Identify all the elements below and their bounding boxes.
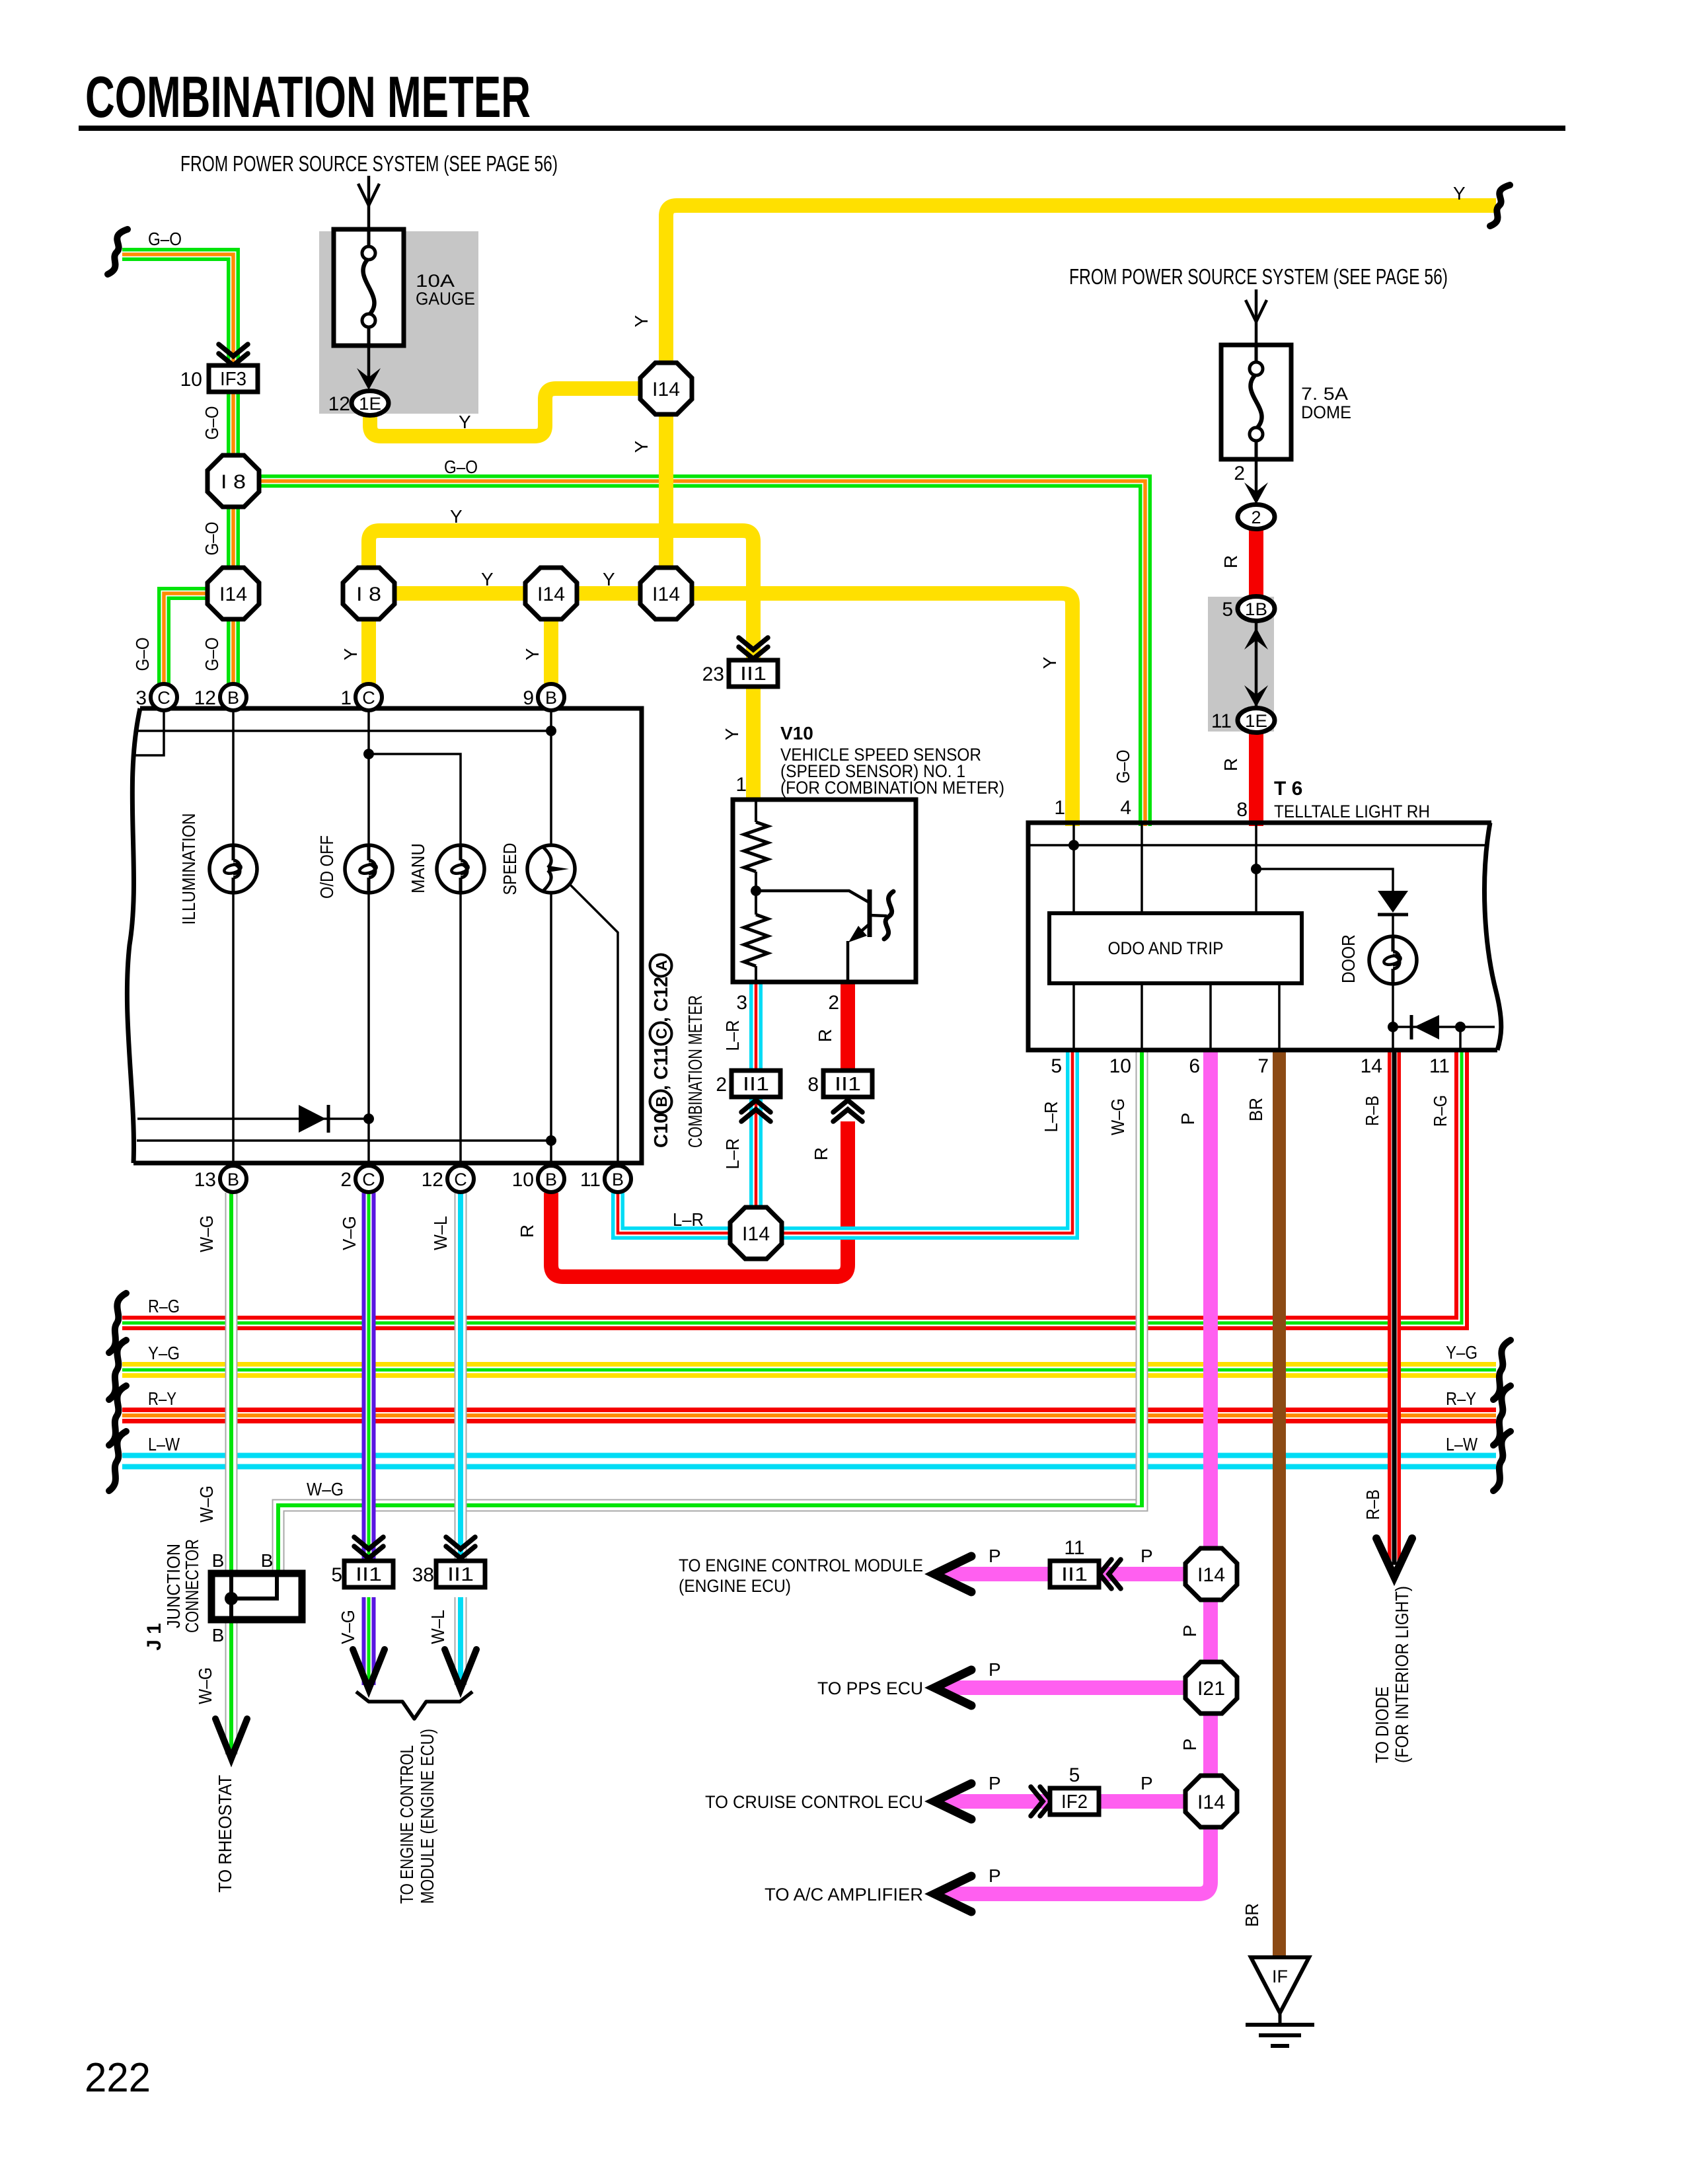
svg-text:Y: Y [481, 569, 494, 589]
svg-text:G–O: G–O [1113, 750, 1133, 784]
svg-text:1: 1 [735, 774, 747, 796]
svg-text:G–O: G–O [148, 229, 182, 249]
svg-text:1E: 1E [1245, 711, 1267, 731]
svg-text:1: 1 [340, 687, 352, 709]
svg-text:23: 23 [702, 663, 724, 685]
svg-text:I 8: I 8 [356, 584, 381, 605]
svg-text:G–O: G–O [202, 522, 222, 556]
svg-text:C: C [362, 1170, 375, 1189]
svg-text:R–G: R–G [148, 1296, 180, 1316]
svg-text:B: B [227, 688, 239, 708]
svg-text:I14: I14 [652, 379, 680, 400]
svg-text:Y: Y [459, 412, 471, 432]
svg-text:B: B [545, 688, 557, 708]
svg-text:G–O: G–O [202, 406, 222, 440]
svg-text:R–Y: R–Y [1446, 1388, 1476, 1409]
svg-text:Y–G: Y–G [1446, 1342, 1478, 1363]
svg-text:I14: I14 [652, 584, 680, 605]
svg-text:W–G: W–G [307, 1479, 344, 1499]
svg-text:ODO AND TRIP: ODO AND TRIP [1108, 938, 1224, 958]
svg-text:Y: Y [450, 506, 463, 527]
svg-text:II1: II1 [743, 1074, 769, 1095]
svg-text:I14: I14 [1197, 1791, 1225, 1813]
svg-text:O/D OFF: O/D OFF [317, 835, 337, 899]
svg-text:DOOR: DOOR [1338, 934, 1359, 983]
svg-text:5: 5 [1222, 599, 1233, 621]
svg-text:W–L: W–L [430, 1216, 451, 1250]
svg-text:9: 9 [523, 687, 534, 709]
svg-text:DOME: DOME [1301, 402, 1351, 422]
svg-text:L–W: L–W [1446, 1434, 1478, 1454]
svg-text:(FOR INTERIOR LIGHT): (FOR INTERIOR LIGHT) [1392, 1586, 1412, 1763]
svg-text:L–R: L–R [722, 1020, 743, 1051]
svg-text:B: B [227, 1170, 239, 1189]
svg-text:P: P [1178, 1113, 1198, 1125]
svg-text:14: 14 [1361, 1055, 1382, 1077]
svg-text:I14: I14 [537, 584, 565, 605]
svg-text:JUNCTION: JUNCTION [163, 1544, 184, 1628]
svg-text:GAUGE: GAUGE [416, 289, 475, 309]
svg-text:I 8: I 8 [221, 471, 246, 493]
svg-text:B: B [261, 1550, 274, 1571]
svg-text:II1: II1 [447, 1564, 474, 1585]
svg-text:2: 2 [828, 992, 839, 1014]
svg-text:TO ENGINE CONTROL: TO ENGINE CONTROL [396, 1745, 417, 1904]
svg-text:G–O: G–O [132, 638, 153, 671]
svg-text:TO CRUISE CONTROL ECU: TO CRUISE CONTROL ECU [705, 1792, 923, 1812]
svg-text:I14: I14 [1197, 1564, 1225, 1586]
svg-text:T 6: T 6 [1274, 778, 1302, 800]
svg-text:G–O: G–O [202, 638, 222, 671]
svg-text:TO DIODE: TO DIODE [1372, 1686, 1392, 1763]
svg-text:(ENGINE ECU): (ENGINE ECU) [679, 1576, 791, 1596]
svg-text:J 1: J 1 [143, 1623, 165, 1651]
svg-text:I14: I14 [219, 584, 247, 605]
svg-text:1B: 1B [1245, 599, 1267, 619]
svg-text:R–B: R–B [1363, 1489, 1383, 1520]
svg-text:I14: I14 [742, 1223, 770, 1245]
svg-text:Y: Y [1039, 656, 1060, 669]
svg-text:7: 7 [1257, 1055, 1269, 1077]
svg-text:11: 11 [1211, 710, 1232, 732]
svg-text:C: C [157, 688, 170, 708]
svg-text:1: 1 [1054, 797, 1065, 819]
svg-text:BR: BR [1246, 1098, 1266, 1121]
svg-text:10: 10 [180, 369, 202, 391]
svg-text:Y: Y [722, 728, 742, 740]
svg-text:G–O: G–O [444, 457, 478, 477]
svg-text:TELLTALE LIGHT RH: TELLTALE LIGHT RH [1274, 802, 1430, 821]
svg-text:R: R [517, 1224, 537, 1238]
svg-text:ILLUMINATION: ILLUMINATION [178, 813, 199, 925]
svg-text:2: 2 [1251, 508, 1261, 527]
svg-text:R–B: R–B [1362, 1096, 1382, 1126]
svg-text:Y: Y [631, 315, 652, 327]
svg-text:II1: II1 [356, 1564, 382, 1585]
svg-text:V–G: V–G [338, 1610, 358, 1644]
svg-text:4: 4 [1120, 797, 1131, 819]
svg-text:12: 12 [422, 1169, 443, 1191]
svg-text:W–L: W–L [428, 1610, 448, 1644]
svg-text:5: 5 [1051, 1055, 1062, 1077]
svg-text:COMBINATION METER: COMBINATION METER [685, 995, 706, 1148]
svg-text:P: P [989, 1546, 1001, 1566]
svg-text:W–G: W–G [1107, 1098, 1128, 1135]
svg-text:L–R: L–R [673, 1209, 704, 1230]
svg-text:11: 11 [1064, 1537, 1084, 1559]
svg-text:CONNECTOR: CONNECTOR [182, 1539, 202, 1633]
svg-text:2: 2 [340, 1169, 352, 1191]
svg-text:3: 3 [135, 687, 147, 709]
svg-text:12: 12 [328, 393, 350, 415]
svg-text:C: C [653, 1028, 670, 1039]
svg-text:Y: Y [522, 648, 543, 660]
svg-text:P: P [1141, 1773, 1153, 1793]
svg-text:SPEED: SPEED [500, 843, 520, 895]
svg-text:TO A/C AMPLIFIER: TO A/C AMPLIFIER [765, 1885, 923, 1904]
svg-text:MANU: MANU [408, 843, 428, 893]
svg-text:MODULE (ENGINE ECU): MODULE (ENGINE ECU) [417, 1729, 437, 1904]
svg-text:2: 2 [1234, 463, 1245, 484]
svg-text:Y–G: Y–G [148, 1343, 180, 1363]
svg-text:V10: V10 [780, 723, 813, 743]
svg-text:P: P [989, 1773, 1001, 1793]
svg-text:V–G: V–G [339, 1216, 359, 1250]
svg-text:IF: IF [1272, 1967, 1288, 1986]
svg-text:(FOR COMBINATION METER): (FOR COMBINATION METER) [780, 778, 1004, 798]
svg-text:7. 5A: 7. 5A [1301, 384, 1348, 404]
svg-text:R–G: R–G [1430, 1095, 1450, 1127]
svg-text:L–W: L–W [148, 1434, 180, 1454]
svg-text:W–G: W–G [195, 1667, 215, 1704]
svg-text:8: 8 [1236, 799, 1248, 821]
svg-text:10: 10 [1109, 1055, 1131, 1077]
svg-text:R–Y: R–Y [148, 1388, 176, 1409]
svg-text:B: B [612, 1170, 624, 1189]
svg-text:10: 10 [512, 1169, 534, 1191]
svg-text:I21: I21 [1197, 1678, 1225, 1700]
svg-text:L–R: L–R [722, 1139, 743, 1170]
svg-text:6: 6 [1189, 1055, 1200, 1077]
svg-text:TO PPS ECU: TO PPS ECU [817, 1678, 923, 1698]
svg-text:BR: BR [1242, 1903, 1262, 1927]
svg-text:P: P [1179, 1625, 1200, 1638]
svg-text:TO ENGINE CONTROL MODULE: TO ENGINE CONTROL MODULE [679, 1556, 923, 1575]
svg-text:10A: 10A [416, 271, 455, 291]
svg-text:FROM POWER SOURCE SYSTEM (SEE: FROM POWER SOURCE SYSTEM (SEE PAGE 56) [180, 151, 558, 176]
svg-text:P: P [1179, 1739, 1200, 1751]
svg-text:Y: Y [340, 648, 361, 660]
svg-text:B: B [212, 1550, 225, 1571]
svg-text:B: B [212, 1625, 225, 1645]
svg-text:11: 11 [580, 1169, 601, 1191]
svg-text:L–R: L–R [1041, 1102, 1061, 1133]
svg-text:8: 8 [807, 1074, 819, 1096]
svg-text:COMBINATION METER: COMBINATION METER [85, 64, 531, 130]
svg-text:IF3: IF3 [220, 369, 246, 390]
svg-text:12: 12 [194, 687, 216, 709]
svg-text:R: R [1220, 555, 1241, 568]
svg-text:IF2: IF2 [1061, 1791, 1088, 1813]
svg-text:, C11: , C11 [651, 1045, 672, 1090]
svg-text:P: P [989, 1865, 1001, 1886]
svg-text:W–G: W–G [196, 1486, 217, 1523]
svg-text:TO RHEOSTAT: TO RHEOSTAT [215, 1775, 235, 1893]
svg-text:C10: C10 [651, 1113, 672, 1148]
svg-text:II1: II1 [835, 1074, 861, 1095]
svg-text:II1: II1 [740, 663, 767, 685]
svg-text:FROM POWER SOURCE SYSTEM (SEE: FROM POWER SOURCE SYSTEM (SEE PAGE 56) [1069, 264, 1448, 289]
svg-text:222: 222 [85, 2055, 151, 2101]
svg-text:5: 5 [331, 1564, 342, 1586]
svg-text:P: P [989, 1659, 1001, 1680]
svg-text:W–G: W–G [196, 1215, 217, 1252]
svg-text:R: R [1220, 758, 1241, 771]
svg-text:Y: Y [1453, 183, 1466, 204]
svg-text:R: R [815, 1029, 835, 1042]
svg-text:B: B [653, 1096, 670, 1108]
svg-text:, C12: , C12 [651, 977, 672, 1022]
svg-text:Y: Y [631, 440, 652, 453]
svg-text:C: C [362, 688, 375, 708]
svg-text:Y: Y [603, 569, 615, 589]
svg-text:38: 38 [412, 1564, 434, 1586]
svg-text:A: A [653, 960, 670, 971]
svg-text:II1: II1 [1061, 1564, 1088, 1585]
svg-text:R: R [811, 1147, 831, 1160]
svg-text:11: 11 [1429, 1055, 1450, 1077]
svg-text:5: 5 [1069, 1764, 1080, 1786]
svg-text:13: 13 [194, 1169, 216, 1191]
svg-text:1E: 1E [359, 394, 381, 414]
svg-text:P: P [1141, 1546, 1153, 1566]
svg-text:3: 3 [736, 992, 747, 1014]
svg-text:2: 2 [716, 1074, 727, 1096]
svg-text:B: B [545, 1170, 557, 1189]
svg-text:C: C [454, 1170, 467, 1189]
